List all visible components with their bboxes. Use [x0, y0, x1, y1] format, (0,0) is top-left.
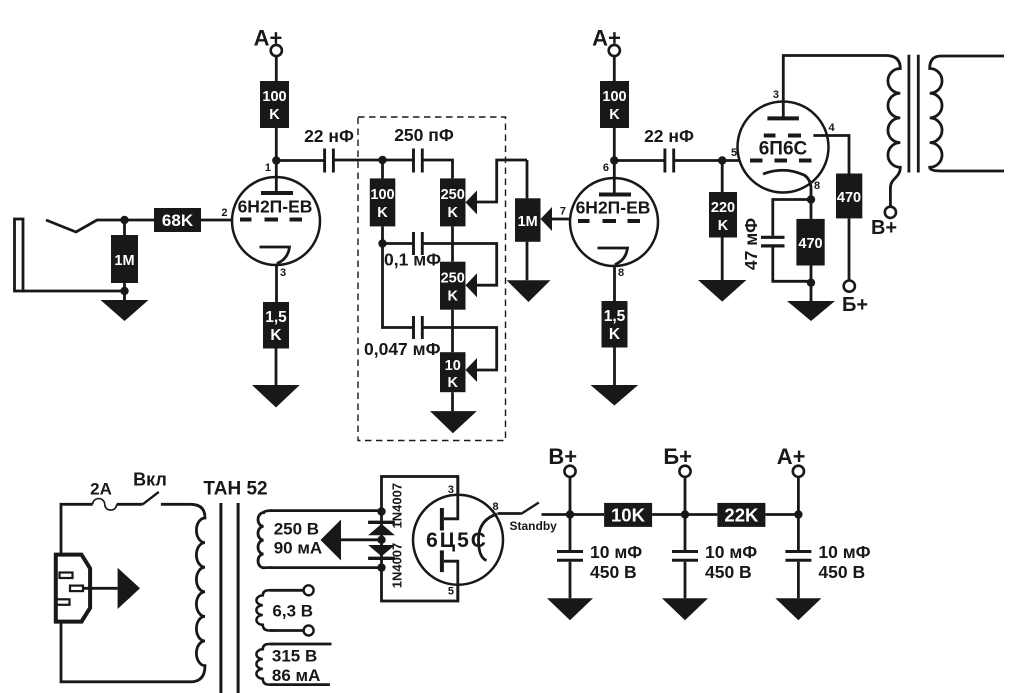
wire cap to tone stack node A: [333, 159, 382, 162]
svg-text:68K: 68K: [162, 211, 194, 230]
capacitor 22 нФ (stage 1 coupling): [325, 149, 334, 173]
svg-text:470: 470: [798, 236, 822, 252]
node Б+: [681, 510, 689, 518]
svg-text:6П6С: 6П6С: [759, 139, 808, 160]
node diode middle: [377, 536, 385, 544]
svg-text:10 мФ: 10 мФ: [590, 542, 642, 562]
svg-text:22K: 22K: [724, 505, 759, 526]
wire node B to 0,1 cap: [383, 242, 414, 245]
power transformer primary winding: [61, 504, 205, 682]
node input grid: [120, 216, 128, 224]
svg-text:8: 8: [493, 501, 499, 513]
volume wiper arrow: [541, 207, 553, 231]
svg-text:1,5: 1,5: [604, 308, 626, 325]
svg-text:1N4007: 1N4007: [390, 543, 405, 589]
svg-text:ТАН 52: ТАН 52: [203, 479, 267, 500]
wire arrow to diodes midpoint: [341, 538, 382, 541]
svg-text:86 мА: 86 мА: [272, 666, 321, 685]
rectifier module box: [382, 477, 458, 602]
svg-text:5: 5: [731, 147, 737, 159]
capacitor 10мФ 450В #3: [797, 515, 800, 599]
wire node to 68K: [125, 219, 155, 222]
svg-text:K: K: [447, 375, 458, 391]
svg-text:470: 470: [837, 190, 861, 206]
ground under V2 cathode: [591, 385, 639, 406]
svg-text:3: 3: [448, 484, 454, 496]
svg-text:2А: 2А: [90, 480, 112, 499]
node diode bottom: [377, 563, 385, 571]
pentode cathode: [763, 170, 811, 199]
resistor 100K anode V1: [260, 81, 289, 128]
svg-text:450 В: 450 В: [590, 562, 637, 582]
svg-text:5: 5: [448, 586, 454, 598]
wire cathode node to 47мФ cap: [773, 200, 811, 236]
wire treble cap to treble pot: [422, 160, 452, 178]
wire 100K to A+: [275, 56, 278, 81]
pentode plate: [767, 116, 799, 120]
svg-text:K: K: [447, 205, 458, 221]
wire volume wiper to V2 grid pin 7: [552, 218, 571, 221]
ground filter cap 2: [662, 598, 708, 620]
resistor 470 screen: [836, 174, 862, 219]
wire bottom node to ground: [810, 283, 813, 301]
svg-text:А+: А+: [592, 26, 621, 51]
wire node to 1M: [123, 220, 126, 235]
wire 0,1 cap to mid pot wiper: [422, 244, 496, 286]
mains plug outline: [56, 555, 90, 622]
ground under 470: [787, 301, 835, 321]
secondary winding 6,3 В: [256, 590, 276, 630]
wire 1,5K to ground: [275, 349, 278, 386]
wire 100K to node B: [381, 226, 384, 243]
wire Б+ node to 22K: [685, 513, 717, 516]
wire fuse to switch: [117, 503, 143, 506]
svg-text:K: K: [270, 327, 282, 344]
wire tone output to volume pot: [526, 160, 529, 198]
wire 220K to ground: [721, 238, 724, 281]
svg-text:8: 8: [814, 180, 820, 192]
ground tone stack: [430, 411, 477, 433]
power transformer core: [221, 503, 238, 693]
node cathode network bottom: [807, 279, 815, 287]
triode V2 plate: [599, 193, 631, 197]
treble pot wiper arrow: [466, 190, 478, 214]
wire 315В bottom: [270, 683, 330, 686]
6Ц5С cathode arc: [479, 514, 498, 561]
wire node 5 to 6П6С grid: [722, 159, 740, 162]
wire V1 plate to node 1: [275, 161, 278, 194]
plug slot top: [60, 573, 73, 579]
wire node A to 100K slope: [381, 160, 384, 178]
svg-text:Standby: Standby: [510, 519, 558, 533]
terminal B+: [569, 477, 572, 515]
svg-text:220: 220: [711, 200, 735, 216]
wire node 6 to coupling cap 2: [614, 159, 665, 162]
wire node B down to 0,047 cap: [383, 244, 414, 328]
node 1 plate V1: [272, 156, 280, 164]
svg-text:315 В: 315 В: [272, 647, 317, 666]
resistor 1,5K cathode V1: [263, 302, 289, 349]
wire 6,3В bottom to terminal: [270, 629, 304, 632]
resistor 68K: [154, 208, 201, 232]
svg-text:0,047 мФ: 0,047 мФ: [364, 339, 441, 359]
node cathode 6П6С: [807, 195, 815, 203]
bass pot wiper arrow: [466, 358, 478, 382]
output transformer primary winding: [886, 56, 900, 207]
wire cathode pin 8 to standby switch: [498, 512, 521, 515]
svg-text:3: 3: [773, 89, 779, 101]
wire 1M to ground node: [123, 283, 126, 300]
svg-text:А+: А+: [254, 26, 283, 51]
wire node1 to 100K: [275, 128, 278, 161]
wire 6,3В top to terminal: [270, 589, 304, 592]
capacitor 10мФ 450В #1: [569, 515, 572, 599]
connector arrow mains: [118, 568, 140, 609]
svg-text:K: K: [718, 218, 729, 234]
input jack J1 sleeve: [15, 219, 24, 291]
wire bass pot to ground: [451, 392, 454, 411]
triode V1 plate: [261, 191, 293, 195]
svg-text:450 В: 450 В: [818, 562, 865, 582]
svg-text:Вкл: Вкл: [133, 470, 167, 490]
wire standby to B+ node: [542, 513, 571, 516]
capacitor 22 нФ (stage 2 coupling): [665, 149, 674, 173]
terminal А+ rail: [797, 477, 800, 515]
wire node A to treble cap: [383, 159, 414, 162]
wire 0,047 cap to bass pot wiper: [422, 328, 496, 371]
triode V2 grid dashes: [578, 219, 640, 223]
svg-text:10K: 10K: [611, 505, 646, 526]
wire 100K to A+ stage 2: [613, 56, 616, 81]
svg-text:250: 250: [441, 271, 465, 287]
wire plate pin 3 up to transformer: [783, 56, 886, 119]
standby switch blade: [521, 503, 539, 515]
wire screen pin 4 to 470: [813, 136, 849, 174]
resistor 1,5K cathode V2: [602, 301, 628, 348]
ground filter cap 3: [775, 598, 821, 620]
terminal В+ (plate supply): [885, 207, 896, 218]
wire plug to fuse: [61, 504, 93, 554]
svg-text:3: 3: [280, 267, 286, 279]
ground filter cap 1: [547, 598, 593, 620]
svg-text:K: K: [609, 107, 620, 123]
svg-text:22 нФ: 22 нФ: [644, 126, 694, 146]
6Ц5С plate top pin 3: [444, 477, 458, 519]
svg-text:K: K: [377, 205, 388, 221]
svg-text:90 мА: 90 мА: [274, 539, 323, 558]
potentiometer 250K middle: [440, 262, 466, 310]
output transformer core: [909, 55, 918, 173]
svg-text:10: 10: [445, 358, 461, 374]
wire V2 plate to node 6: [613, 161, 616, 195]
svg-text:6Ц5С: 6Ц5С: [426, 529, 488, 552]
wire plug middle slot to arrow: [83, 587, 118, 590]
wire cathode node to 470: [810, 200, 813, 219]
wire mid pot to bass pot: [451, 310, 454, 353]
triode V1 cathode: [260, 247, 290, 264]
plug slot middle: [70, 586, 83, 592]
pentode 6П6С envelope: [738, 102, 829, 193]
wire 22K to А+ node: [765, 513, 798, 516]
terminal Б+ rail: [684, 477, 687, 515]
svg-text:1M: 1M: [518, 214, 538, 230]
fuse 2А: [93, 498, 117, 510]
svg-text:K: K: [269, 107, 280, 123]
wire 68K to V1 grid pin 2: [201, 219, 233, 222]
svg-text:8: 8: [618, 267, 624, 279]
svg-text:K: K: [609, 326, 621, 343]
wire V2 cathode to 1,5K: [613, 265, 616, 302]
resistor 220K: [709, 192, 737, 238]
plug slot bottom: [57, 599, 70, 605]
node B: [378, 239, 386, 247]
svg-text:10 мФ: 10 мФ: [818, 542, 870, 562]
node A tone input: [378, 156, 386, 164]
triode V1 6Н2П-ЕВ envelope: [232, 177, 320, 265]
output transformer secondary winding: [930, 56, 1004, 171]
wire switch to transformer primary: [161, 503, 191, 506]
svg-text:2: 2: [221, 207, 227, 219]
pentode control grid dashes: [750, 159, 812, 163]
wire cap2 to node 5: [674, 159, 723, 162]
node diode top: [377, 507, 385, 515]
svg-text:100: 100: [262, 89, 286, 105]
terminal A+ (stage 1): [271, 45, 282, 56]
ground under 1M: [101, 300, 149, 321]
node ground junction: [120, 287, 128, 295]
svg-text:7: 7: [560, 206, 566, 218]
wire 1,5K V2 to ground: [613, 348, 616, 386]
svg-text:1: 1: [265, 162, 271, 174]
svg-text:0,1 мФ: 0,1 мФ: [384, 250, 441, 270]
svg-text:Б+: Б+: [842, 294, 868, 316]
svg-text:10 мФ: 10 мФ: [705, 542, 757, 562]
svg-text:1M: 1M: [114, 253, 134, 269]
svg-text:6: 6: [603, 162, 609, 174]
svg-text:В+: В+: [548, 444, 577, 469]
diode 1N4007 upper: [368, 521, 395, 524]
resistor 100K anode V2: [600, 81, 629, 128]
terminal A+ (stage 2): [609, 45, 620, 56]
resistor 10K: [604, 503, 652, 527]
wire 47мФ to bottom node: [773, 247, 811, 281]
svg-text:K: K: [447, 289, 458, 305]
6Ц5С plate bottom pin 5: [444, 561, 458, 601]
triode V1 grid dashes: [240, 218, 302, 222]
potentiometer 10K bass: [440, 352, 466, 392]
ground under V1 cathode: [252, 385, 300, 408]
wire V1 cathode to 1,5K: [275, 264, 278, 303]
switch Вкл blade: [143, 492, 159, 504]
svg-text:Б+: Б+: [663, 444, 692, 469]
svg-text:100: 100: [370, 187, 394, 203]
svg-text:6Н2П-ЕВ: 6Н2П-ЕВ: [576, 198, 651, 218]
svg-text:4: 4: [829, 122, 836, 134]
wire treble wiper to output: [477, 160, 527, 202]
svg-text:В+: В+: [871, 217, 897, 239]
input jack J1 tip contact: [46, 220, 122, 232]
pentode screen grid dashes: [764, 134, 801, 138]
rectifier tube 6Ц5С envelope: [413, 495, 503, 585]
wire 250В top to diode node: [269, 511, 381, 568]
ground under 220K: [698, 280, 746, 302]
node А+: [794, 510, 802, 518]
svg-text:1N4007: 1N4007: [390, 483, 405, 529]
wire node 6 to 100K: [613, 128, 616, 161]
wire 315В top: [270, 643, 332, 646]
triode V2 6Н2П-ЕВ envelope: [570, 178, 658, 266]
capacitor 0,047 мФ: [414, 316, 423, 339]
wire screen 470 to Б+ terminal: [848, 218, 851, 280]
potentiometer 250K treble: [440, 178, 466, 226]
node 6 plate V2: [610, 156, 618, 164]
terminal 6,3В top: [304, 585, 314, 595]
capacitor 250 пФ treble: [414, 149, 423, 173]
svg-text:22 нФ: 22 нФ: [304, 126, 354, 146]
wire node1 to coupling cap: [276, 159, 324, 162]
svg-text:6,3 В: 6,3 В: [272, 602, 313, 621]
connector arrow HV winding: [321, 520, 342, 561]
resistor 22K: [717, 503, 765, 527]
mid pot wiper arrow: [466, 273, 478, 297]
wire 470 to bottom node: [810, 266, 813, 283]
node B+: [566, 510, 574, 518]
svg-text:450 В: 450 В: [705, 562, 752, 582]
TONE STACK dashed enclosure: [358, 117, 506, 441]
wire treble pot to mid pot: [451, 226, 454, 261]
svg-text:250 пФ: 250 пФ: [394, 125, 454, 145]
terminal Б+ (screen supply): [844, 281, 855, 292]
svg-text:47 мФ: 47 мФ: [741, 218, 761, 270]
wire 10K to Б+ node: [652, 513, 685, 516]
capacitor 47 мФ: [761, 237, 785, 246]
svg-text:250 В: 250 В: [274, 520, 319, 539]
svg-text:250: 250: [441, 187, 465, 203]
wire sleeve to ground: [23, 290, 125, 293]
secondary winding 315 В 86 мА: [256, 644, 276, 685]
ground under volume: [507, 280, 551, 302]
capacitor 0,1 мФ bass: [414, 232, 423, 255]
svg-text:А+: А+: [777, 444, 806, 469]
terminal 6,3В bottom: [304, 626, 314, 636]
wire node 5 to 220K: [721, 161, 724, 193]
diode 1N4007 lower: [368, 545, 395, 556]
svg-text:100: 100: [602, 89, 626, 105]
resistor 470 cathode: [796, 219, 824, 266]
wire B+ node to 10K: [570, 513, 604, 516]
wire volume pot to ground: [526, 242, 529, 280]
svg-text:1,5: 1,5: [265, 309, 287, 326]
secondary winding 250 В 90 мА: [258, 511, 272, 568]
node 5: [718, 156, 726, 164]
capacitor 10мФ 450В #2: [684, 515, 687, 599]
resistor 1M grid leak: [111, 235, 138, 283]
resistor 100K slope: [370, 178, 396, 226]
svg-text:6Н2П-ЕВ: 6Н2П-ЕВ: [238, 197, 313, 217]
potentiometer 1M volume: [515, 198, 541, 242]
triode V2 cathode: [598, 248, 628, 265]
